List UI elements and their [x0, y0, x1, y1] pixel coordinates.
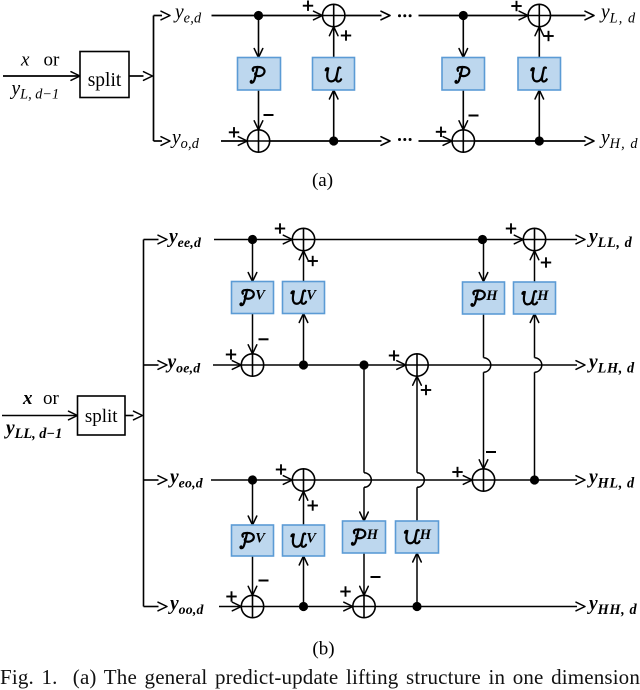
svg-text:split: split [88, 70, 122, 91]
svg-text:V: V [255, 288, 266, 304]
svg-text:H: H [419, 527, 432, 543]
svg-text:(b): (b) [312, 639, 334, 660]
svg-text:H: H [485, 288, 498, 304]
svg-text:H: H [536, 288, 549, 304]
svg-text:or: or [43, 388, 60, 409]
svg-text:H: H [366, 527, 379, 543]
svg-text:V: V [255, 531, 266, 547]
svg-text:or: or [44, 50, 61, 71]
svg-text:x: x [20, 50, 30, 71]
svg-text:V: V [306, 531, 317, 547]
svg-text:x: x [22, 388, 33, 409]
svg-text:V: V [306, 288, 317, 304]
svg-text:(a): (a) [312, 170, 333, 191]
svg-text:split: split [85, 406, 118, 427]
